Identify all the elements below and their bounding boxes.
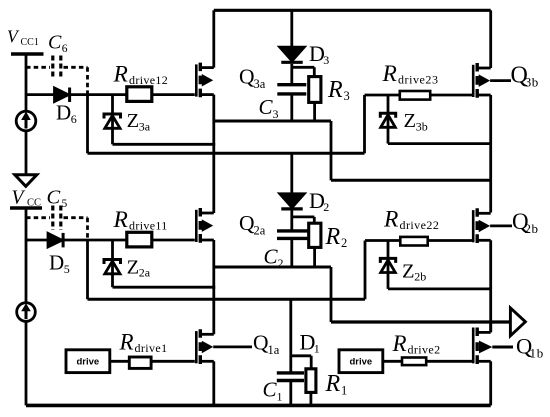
resistor Rdrive11 label xyxy=(113,207,168,233)
resistor Rdrive2 xyxy=(402,358,426,366)
capacitor C5 dashed plates xyxy=(53,206,61,231)
resistor R2 xyxy=(309,223,321,247)
svg-text:D: D xyxy=(56,100,71,124)
wire VCC rail down to current source 2 xyxy=(25,210,28,303)
wire Q3a drain up to top rail xyxy=(212,10,215,67)
capacitor C5 label xyxy=(47,186,68,210)
svg-text:2: 2 xyxy=(341,236,347,250)
svg-text:R: R xyxy=(119,330,134,355)
wire Rdrive2 to Q1b gate xyxy=(427,360,473,363)
arrow into VCC node xyxy=(15,175,37,187)
wire D2 to R2 branch xyxy=(292,217,315,223)
svg-text:drive22: drive22 xyxy=(400,218,440,232)
diode D5 label xyxy=(49,251,70,276)
wire into Rdrive23 xyxy=(365,94,401,97)
wire current source 1 to arrow xyxy=(25,131,28,175)
wire Q3b drain up to top rail xyxy=(489,10,492,68)
resistor Rdrive11 xyxy=(127,232,152,247)
resistor Rdrive12 label xyxy=(113,61,169,87)
wire drive1 to Rdrive1 xyxy=(110,360,129,363)
zener Z2b label xyxy=(402,260,426,283)
resistor Rdrive1 xyxy=(129,357,151,368)
wire Z2b anode return xyxy=(388,287,491,290)
wire R1 bottom lead xyxy=(309,392,312,405)
resistor R1 xyxy=(306,369,316,393)
node VCC1 supply bar xyxy=(11,52,44,56)
wire R3 bottom lead xyxy=(313,102,316,121)
wire Q2a source branch right xyxy=(214,266,331,269)
wire Z3a anode return xyxy=(113,143,216,146)
zener Z2b xyxy=(380,241,395,289)
diode D3 label xyxy=(309,41,329,67)
svg-text:R: R xyxy=(383,207,398,233)
svg-text:Z: Z xyxy=(127,257,140,279)
wire Q2a source corner down xyxy=(330,267,333,322)
svg-text:3: 3 xyxy=(273,107,279,121)
svg-text:drive1: drive1 xyxy=(135,341,168,355)
svg-text:2b: 2b xyxy=(525,221,539,236)
svg-text:R: R xyxy=(325,371,341,397)
svg-text:drive12: drive12 xyxy=(129,73,168,87)
svg-text:3: 3 xyxy=(323,53,329,67)
svg-text:Z: Z xyxy=(127,110,140,132)
svg-text:R: R xyxy=(327,77,343,103)
output buffer triangle xyxy=(510,308,525,336)
svg-text:C: C xyxy=(48,31,62,53)
resistor Rdrive12 xyxy=(127,87,152,102)
svg-text:1: 1 xyxy=(314,342,320,356)
transistor Q3b xyxy=(473,63,491,98)
svg-text:D: D xyxy=(49,251,64,275)
diode D2 xyxy=(280,153,304,231)
transistor Q1b label xyxy=(516,334,544,361)
wire D1 to R1 branch xyxy=(291,356,311,369)
svg-text:C: C xyxy=(259,95,274,119)
zener Z3b xyxy=(380,95,395,144)
wire bottom rail xyxy=(26,404,491,408)
transistor Q2b xyxy=(473,208,491,243)
diode D3 xyxy=(280,10,304,84)
drive block 2 xyxy=(339,350,383,373)
wire Rdrive12 to Q3a gate xyxy=(152,93,195,96)
transistor Q3a xyxy=(196,63,214,98)
transistor Q1a xyxy=(196,329,214,364)
wire VCC1 rail down to current source 1 xyxy=(25,54,28,111)
wire node B drop from D5 cathode xyxy=(86,240,89,299)
wire Rdrive1 to Q1a gate xyxy=(152,360,195,363)
capacitor C2 label xyxy=(264,244,284,270)
svg-text:3: 3 xyxy=(344,89,350,103)
svg-text:1: 1 xyxy=(341,384,347,398)
resistor R3 label xyxy=(327,77,350,103)
svg-text:C: C xyxy=(263,378,278,402)
svg-text:3a: 3a xyxy=(254,77,266,91)
transistor Q1a label xyxy=(253,331,280,357)
svg-text:V: V xyxy=(7,27,20,47)
resistor Rdrive2 label xyxy=(392,331,441,357)
svg-text:C: C xyxy=(264,244,279,268)
diode D1 label xyxy=(300,330,320,356)
zener Z3a xyxy=(104,95,121,145)
wire top rail xyxy=(214,9,491,12)
svg-text:CC1: CC1 xyxy=(21,37,39,48)
svg-text:6: 6 xyxy=(62,43,68,55)
wire drive2 to Rdrive2 xyxy=(383,360,402,363)
node VCC supply bar xyxy=(10,206,42,210)
svg-text:1a: 1a xyxy=(268,343,280,357)
wire R2 bottom lead xyxy=(313,247,316,267)
diode D5 xyxy=(26,233,127,248)
capacitor C6 label xyxy=(48,31,68,54)
wire stage3 aux bus xyxy=(88,152,365,155)
diode D2 label xyxy=(309,188,329,214)
transistor Q1b callout xyxy=(492,346,513,349)
wire Q3b source down to Q2b drain xyxy=(489,95,492,213)
resistor R3 xyxy=(309,77,321,103)
transistor Q3b callout xyxy=(490,79,511,82)
svg-text:3a: 3a xyxy=(139,119,151,133)
zener Z2a label xyxy=(127,257,151,280)
zener Z3a label xyxy=(127,110,151,133)
resistor R2 label xyxy=(325,224,348,250)
wire Q2b source down to Q1b drain xyxy=(489,240,492,332)
capacitor C2 xyxy=(277,231,308,267)
svg-text:1: 1 xyxy=(277,389,283,403)
svg-text:V: V xyxy=(12,188,26,209)
svg-text:3b: 3b xyxy=(525,75,539,90)
svg-text:drive11: drive11 xyxy=(129,219,168,233)
wire Q3a source down to Q2a drain xyxy=(212,95,215,213)
svg-text:5: 5 xyxy=(62,198,68,210)
wire Q1a source to bottom rail xyxy=(212,361,215,405)
svg-text:6: 6 xyxy=(71,112,77,126)
wire Q2a source down to Q1a drain xyxy=(212,240,215,334)
current source I1 xyxy=(16,111,36,131)
wire Rdrive22 to Q2b gate xyxy=(428,239,473,242)
resistor R1 label xyxy=(325,371,348,398)
svg-text:3b: 3b xyxy=(416,119,428,133)
svg-text:drive: drive xyxy=(349,357,372,368)
diode D6 xyxy=(26,88,127,103)
wire Rdrive23 to Q3b gate xyxy=(431,94,474,97)
svg-text:Z: Z xyxy=(404,110,417,132)
wire Q1b drain up to output bus xyxy=(489,322,492,332)
svg-text:drive: drive xyxy=(76,357,99,368)
capacitor C5 dashed left lead xyxy=(26,216,50,219)
svg-text:drive23: drive23 xyxy=(398,73,439,87)
wire Q3a source to right column xyxy=(331,179,491,182)
drive block 1 xyxy=(66,350,110,373)
resistor Rdrive23 xyxy=(400,91,430,100)
svg-text:5: 5 xyxy=(64,262,70,276)
wire stage2 aux bus xyxy=(88,298,366,301)
svg-text:2: 2 xyxy=(278,256,284,270)
svg-text:R: R xyxy=(113,61,128,87)
wire D1 feed from stage2 aux xyxy=(289,299,292,373)
node VCC label xyxy=(12,188,42,209)
wire stage3 aux riser to Rdrive23 xyxy=(363,95,366,153)
resistor Rdrive22 xyxy=(400,237,427,246)
resistor Rdrive22 label xyxy=(383,207,439,233)
wire Q3a source branch right xyxy=(214,120,331,123)
wire Z3b anode return xyxy=(388,142,491,145)
wire into Rdrive22 xyxy=(365,239,401,242)
transistor Q2b callout xyxy=(490,224,512,227)
transistor Q1a callout xyxy=(213,345,252,348)
svg-text:drive2: drive2 xyxy=(408,343,441,357)
wire Q3a source corner down xyxy=(330,121,333,180)
zener Z3b label xyxy=(404,110,428,133)
transistor Q3b label xyxy=(511,62,539,89)
capacitor C1 label xyxy=(263,378,283,404)
capacitor C6 dashed plates xyxy=(53,56,61,80)
svg-text:C: C xyxy=(47,186,61,208)
wire Q1b source to bottom rail xyxy=(489,361,492,405)
diode D6 label xyxy=(56,100,77,126)
capacitor C5 dashed right lead xyxy=(64,218,88,239)
svg-text:R: R xyxy=(392,331,407,356)
svg-text:2a: 2a xyxy=(254,223,266,237)
wire Z2a anode return xyxy=(113,286,216,289)
zener Z2a xyxy=(104,240,121,287)
capacitor C3 label xyxy=(259,95,279,121)
transistor Q2b label xyxy=(512,209,539,236)
resistor Rdrive23 label xyxy=(382,61,439,87)
wire Rdrive11 to Q2a gate xyxy=(152,239,195,242)
current source I2 xyxy=(17,303,36,322)
wire output bus xyxy=(331,320,510,323)
capacitor C3 xyxy=(277,85,306,121)
wire D3 to R3 branch xyxy=(292,67,315,76)
capacitor C6 dashed left lead xyxy=(26,66,50,69)
wire stage2 aux riser to Rdrive22 xyxy=(364,241,367,300)
capacitor C1 xyxy=(277,373,304,406)
svg-text:R: R xyxy=(113,207,128,233)
node VCC1 label xyxy=(7,27,39,49)
transistor Q2a label xyxy=(239,211,266,237)
transistor Q1b xyxy=(473,328,492,365)
capacitor C6 dashed right lead xyxy=(64,67,88,94)
svg-text:2b: 2b xyxy=(414,270,426,284)
svg-text:R: R xyxy=(325,224,341,250)
wire current source 2 to bottom rail xyxy=(25,321,28,405)
svg-text:2: 2 xyxy=(323,200,329,214)
wire node A drop from D6 cathode xyxy=(86,95,89,154)
transistor Q2a xyxy=(196,208,214,243)
svg-text:Z: Z xyxy=(402,260,415,282)
svg-text:1b: 1b xyxy=(530,346,545,361)
svg-text:R: R xyxy=(382,61,397,87)
resistor Rdrive1 label xyxy=(119,330,168,356)
svg-text:2a: 2a xyxy=(139,266,151,280)
transistor Q3a label xyxy=(239,65,266,91)
